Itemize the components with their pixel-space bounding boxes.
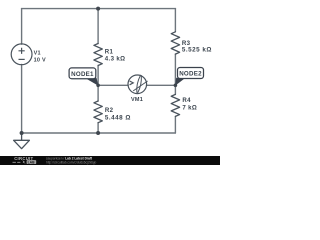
wire right column bottom (R4 to bottom rail)	[174, 116, 176, 133]
wire right column mid (R3 to node2 junction)	[174, 54, 176, 85]
node NODE1 flag	[69, 68, 96, 79]
label V1 value	[34, 50, 46, 63]
junction dot node1	[96, 84, 100, 88]
wire voltmeter right (VM1 to node2)	[147, 84, 176, 86]
wire left column top (V1 to top rail)	[21, 9, 23, 45]
label R3 value	[182, 40, 212, 54]
voltmeter VM1	[128, 75, 148, 94]
svg-text:V1: V1	[34, 50, 41, 56]
svg-text:R2: R2	[105, 107, 114, 114]
svg-text:http://circuitlab.com/c/du6s6c: http://circuitlab.com/c/du6s6cj2k6yp	[46, 161, 97, 165]
wire middle column (node1 junction to R2)	[97, 85, 99, 101]
junction dot node2	[174, 84, 178, 88]
node NODE1 flag arrow	[86, 78, 99, 86]
voltage source V1	[11, 44, 32, 65]
junction dot top middle	[96, 7, 100, 11]
svg-text:10 V: 10 V	[34, 57, 46, 63]
label R2 value	[105, 107, 131, 122]
wire left column bottom (V1 to bottom rail)	[21, 64, 23, 133]
svg-text:VM1: VM1	[131, 97, 143, 103]
resistor R1	[94, 44, 102, 66]
resistor R4	[171, 94, 179, 116]
svg-text:NODE2: NODE2	[179, 71, 202, 78]
wire top rail	[22, 8, 176, 10]
svg-text:R4: R4	[182, 97, 191, 104]
svg-text:7 kΩ: 7 kΩ	[182, 105, 197, 112]
wire bottom rail	[22, 132, 176, 134]
footer caption	[46, 156, 97, 164]
footer bar	[0, 156, 220, 165]
svg-text:5.525 kΩ: 5.525 kΩ	[182, 47, 212, 54]
node NODE2 flag	[178, 68, 204, 79]
resistor R3	[171, 32, 179, 54]
label R1 value	[105, 48, 126, 62]
wire voltmeter left (node1 to VM1)	[98, 84, 128, 86]
svg-text:5.448 Ω: 5.448 Ω	[105, 115, 131, 122]
CircuitLab logo	[13, 156, 37, 165]
junction dot bottom middle	[96, 131, 100, 135]
wire middle column mid (R1 to node1 junction)	[97, 66, 99, 86]
junction dot bottom left	[20, 131, 24, 135]
wire middle column bottom (R2 to bottom rail)	[97, 123, 99, 133]
svg-text:LAB: LAB	[28, 160, 36, 164]
resistor R2	[94, 101, 102, 123]
svg-text:R1: R1	[105, 48, 114, 55]
node NODE2 flag arrow	[175, 78, 185, 86]
wire right column (node2 junction to R4)	[174, 85, 176, 94]
ground	[14, 133, 30, 149]
wire middle column top (top rail to R1)	[97, 9, 99, 44]
wire right column top (top rail to R3)	[174, 9, 176, 32]
svg-text:NODE1: NODE1	[71, 71, 94, 78]
svg-text:4.3 kΩ: 4.3 kΩ	[105, 56, 126, 63]
label R4 value	[182, 97, 197, 112]
